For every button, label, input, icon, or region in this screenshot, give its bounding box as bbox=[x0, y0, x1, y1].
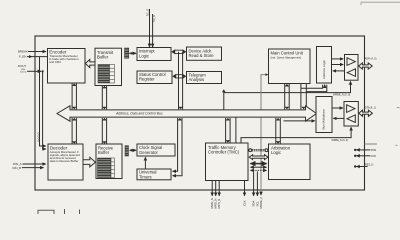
wire SCR-TA fat arrow bbox=[172, 74, 186, 79]
wire bus to TMC thin bbox=[235, 118, 237, 143]
wire Encoder-bus channel bbox=[72, 83, 77, 109]
pin DIN_B bbox=[22, 167, 44, 169]
wire TMC-AL thick bbox=[251, 163, 267, 165]
svg-text:RxD/TxD: RxD/TxD bbox=[37, 132, 40, 142]
wire reset pin to MCU bbox=[261, 75, 266, 195]
wire AL to driver1 a bbox=[332, 58, 344, 60]
svg-text:Address, Data and Control Bus: Address, Data and Control Bus bbox=[115, 112, 163, 116]
pin MRD_N bbox=[215, 181, 217, 196]
wire RB-bus channel bbox=[102, 118, 107, 144]
wire TMC-AL thin bbox=[251, 166, 267, 168]
svg-text:POD: POD bbox=[371, 155, 377, 158]
wire MCU-bus channel2 bbox=[301, 84, 306, 110]
svg-text:PON: PON bbox=[371, 149, 377, 152]
pin RES_N right bbox=[354, 165, 368, 167]
wire driver2 to TMC bbox=[241, 127, 351, 143]
junction register bus into main bus bbox=[178, 107, 183, 110]
svg-text:SC_O: SC_O bbox=[152, 15, 156, 22]
wire feedback A bbox=[40, 57, 46, 146]
pin DIN_A bbox=[23, 163, 46, 165]
pin test right bbox=[365, 143, 378, 145]
port DTA bidirectional bbox=[359, 110, 373, 116]
block Encoder bbox=[48, 49, 86, 84]
pin label DOUT bbox=[18, 64, 26, 73]
svg-text:Address Logic: Address Logic bbox=[322, 59, 326, 79]
svg-text:data to Receive Buffer: data to Receive Buffer bbox=[50, 159, 79, 163]
svg-text:DOUT: DOUT bbox=[18, 64, 26, 68]
decorative cut-off glyphs bottom left bbox=[38, 209, 80, 214]
wire BM to driver2 bbox=[332, 107, 343, 109]
svg-text:RES_N: RES_N bbox=[365, 164, 374, 167]
block Device Addr Read & Store bbox=[187, 47, 222, 60]
block Traffic Memory Controller bbox=[206, 143, 249, 181]
pin PON bbox=[354, 149, 370, 151]
svg-text:WRBE_N (0..0): WRBE_N (0..0) bbox=[332, 139, 349, 142]
svg-text:Generator: Generator bbox=[139, 150, 158, 155]
bus rip symbol RB-CSG bbox=[125, 146, 129, 156]
wire to Clock Signal Generator bbox=[133, 149, 136, 151]
svg-text:Main Control Unit: Main Control Unit bbox=[271, 51, 304, 56]
svg-text:Logic: Logic bbox=[271, 150, 281, 155]
svg-text:Register: Register bbox=[139, 77, 155, 82]
wire Decoder-bus channel bbox=[72, 118, 77, 144]
wire bus to UT b bbox=[173, 118, 182, 176]
wire driver1 to AL bbox=[333, 70, 345, 72]
block Transmit Buffer bbox=[95, 48, 122, 85]
wire driver2 to BM bbox=[333, 117, 344, 119]
svg-text:Buffer: Buffer bbox=[97, 54, 109, 59]
block Telegram Analysis bbox=[187, 72, 222, 84]
block Universal Timers bbox=[137, 169, 171, 180]
block pad driver DTA bbox=[344, 102, 358, 127]
wire TMC-AL serial link bbox=[249, 149, 268, 152]
wire AL to driver1 b bbox=[332, 64, 344, 66]
chip boundary bbox=[35, 36, 365, 190]
wire register bus vertical left bbox=[178, 52, 180, 110]
pin RC_O top bbox=[149, 9, 151, 47]
svg-text:RC_O: RC_O bbox=[146, 9, 150, 16]
pin BREAK bbox=[28, 51, 46, 53]
svg-text:BREAK: BREAK bbox=[18, 50, 28, 54]
block Interrupt Logic bbox=[137, 48, 171, 61]
pin DOUT bbox=[27, 70, 44, 72]
wire control to Bus Multiplexer bbox=[284, 120, 315, 122]
pin POD bbox=[354, 155, 370, 157]
bus Address Data Control bbox=[57, 106, 317, 121]
svg-text:Logic: Logic bbox=[139, 53, 149, 58]
svg-text:MCS_N: MCS_N bbox=[217, 199, 221, 209]
pin F_EN bbox=[27, 55, 47, 58]
wire to Interrupt Logic bbox=[133, 52, 136, 54]
wire WRBE net bbox=[222, 81, 351, 109]
block Clock Signal Generator bbox=[137, 144, 175, 156]
bus rip symbol TB-IL bbox=[125, 48, 129, 58]
decorative dash right edge bbox=[396, 108, 400, 146]
wire bus to UT a bbox=[173, 118, 178, 171]
pin SCL bbox=[256, 172, 258, 196]
pin SC_O top bbox=[152, 14, 154, 47]
svg-text:F_EN: F_EN bbox=[19, 55, 26, 59]
block Arbitration Logic bbox=[269, 144, 311, 180]
wire ArbLogic-bus channel bbox=[276, 118, 281, 144]
pin MCS_N bbox=[218, 181, 220, 196]
wire Decoder to RB hollow arrow bbox=[83, 157, 96, 167]
wire TB-bus channel bbox=[102, 86, 107, 110]
pin CLK bbox=[244, 181, 246, 196]
wire MCU to Address Logic L pair bbox=[301, 85, 323, 89]
wire feedback B bbox=[43, 71, 46, 149]
svg-text:Timers: Timers bbox=[139, 174, 152, 179]
block Decoder bbox=[48, 144, 83, 180]
decorative cut-off frame top right bbox=[361, 2, 400, 5]
wire IL-DA fat arrow bbox=[171, 49, 186, 54]
node junction RB-CSG bbox=[131, 149, 133, 151]
pin SDA bbox=[253, 172, 255, 196]
wire TMC-bus channel bbox=[226, 118, 231, 143]
svg-text:(incl. Queue Management): (incl. Queue Management) bbox=[271, 55, 302, 59]
block Bus Multiplexer bbox=[316, 97, 332, 133]
svg-text:and CRC: and CRC bbox=[49, 60, 61, 64]
wire TMC-AL hollow arrow bbox=[249, 155, 268, 160]
svg-text:Analysis: Analysis bbox=[189, 77, 205, 82]
node junction TB-IL bbox=[131, 52, 133, 54]
port ADR bidirectional bbox=[359, 63, 373, 69]
junction UT channel into bus bbox=[178, 118, 183, 121]
wire TMC-AL dashed bbox=[251, 169, 267, 171]
block Main Control Unit bbox=[269, 49, 311, 84]
svg-text:MODE_0: MODE_0 bbox=[259, 197, 263, 209]
svg-text:Bus Multiplexer: Bus Multiplexer bbox=[321, 109, 325, 130]
block Status Control Register bbox=[137, 71, 172, 84]
svg-text:Buffer: Buffer bbox=[98, 150, 110, 155]
svg-text:DIN_B: DIN_B bbox=[13, 166, 22, 170]
wire TB to Encoder hollow arrow bbox=[85, 59, 95, 67]
svg-text:CLK: CLK bbox=[243, 200, 247, 206]
wire arrow into Address Logic bottom bbox=[324, 85, 326, 88]
wire register bus vertical right bbox=[182, 52, 184, 110]
svg-text:DTA (8..1): DTA (8..1) bbox=[365, 106, 376, 109]
svg-text:ADR (4..0): ADR (4..0) bbox=[365, 58, 377, 61]
block Receive Buffer bbox=[96, 144, 122, 179]
svg-text:Controller (TMC): Controller (TMC) bbox=[208, 149, 240, 154]
svg-text:WRBE_N (0..0): WRBE_N (0..0) bbox=[333, 94, 350, 97]
wire MCU-bus channel1 bbox=[285, 84, 290, 110]
block pad driver ADR bbox=[345, 55, 359, 81]
pin RES_N bottom bbox=[260, 194, 262, 196]
pin MWE_N bbox=[211, 181, 213, 196]
block Address Logic bbox=[317, 47, 332, 84]
svg-text:intern): intern) bbox=[20, 70, 26, 73]
svg-text:Read & Store: Read & Store bbox=[189, 53, 215, 58]
wire UT to CSG bbox=[144, 157, 146, 169]
